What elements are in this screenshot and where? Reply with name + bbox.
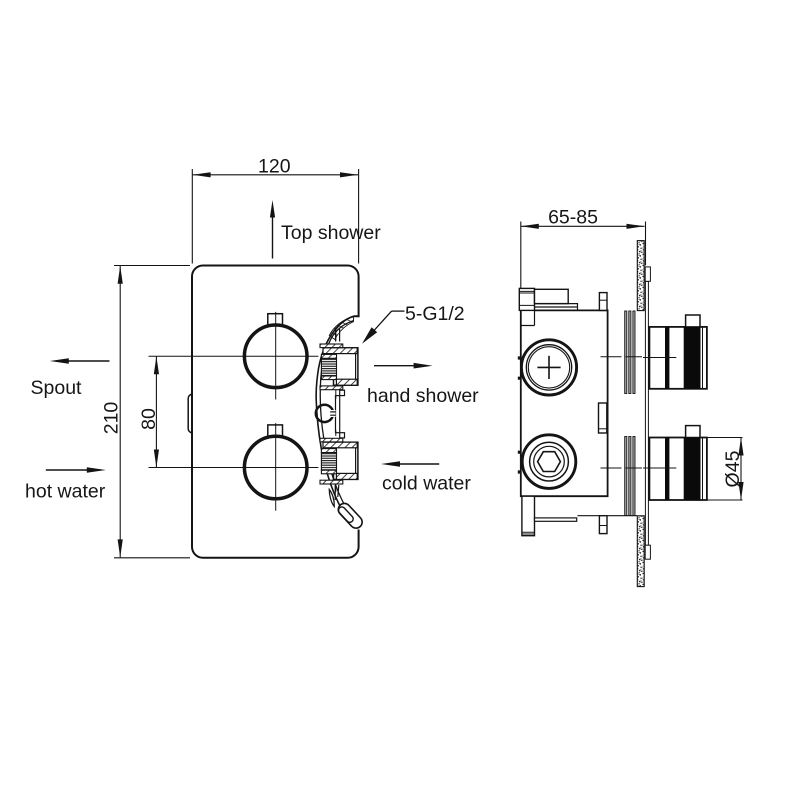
threaded rods upper (625, 311, 627, 394)
dim line 80 (155, 356, 157, 467)
left column lower line (521, 310, 535, 325)
block lines (522, 532, 535, 534)
body bottom thin bar (535, 518, 577, 521)
bottom handle centerline horizontal (149, 467, 319, 469)
top knob face line (702, 327, 704, 389)
bottom handle centerline vertical (275, 423, 277, 511)
DIMENSION 80 (154, 356, 159, 467)
leaf detail left of hook (329, 490, 334, 507)
arrow top of 210 (118, 266, 123, 284)
section band hatched top segment (329, 316, 353, 339)
flange top bar (320, 344, 343, 348)
svg-text:5-G1/2: 5-G1/2 (405, 303, 465, 325)
CONNECTOR bottom (cold water port) (320, 430, 358, 492)
spout bump on left edge (188, 394, 192, 433)
dim line 210 (119, 266, 121, 557)
top knob thick band (684, 327, 701, 389)
arrow left (521, 224, 539, 229)
barrel threads top (321, 358, 336, 376)
body top block (535, 289, 569, 303)
dim line 65-85 (521, 225, 645, 227)
dim line (740, 438, 742, 501)
body middle right tab (599, 403, 607, 433)
hatched rib patch (336, 327, 340, 334)
arrow left cold water (395, 463, 439, 465)
body top plate under block (535, 304, 578, 311)
ANNOTATION hot water (46, 467, 106, 473)
connector vertical centerline top (335, 328, 337, 341)
escutcheon bottom edge (608, 515, 637, 517)
top knob stem (686, 315, 700, 327)
nut top wall hatch (323, 442, 357, 448)
svg-text:hand shower: hand shower (367, 385, 479, 407)
bottom knob outline (649, 438, 707, 501)
svg-text:210: 210 (101, 402, 123, 435)
DIMENSION diameter 45 (707, 438, 744, 501)
bottom knob thin band (665, 438, 669, 501)
bore right wall (355, 448, 357, 474)
nut body top (334, 348, 358, 385)
bottom knob thick band (684, 438, 701, 501)
barrel threads bottom (321, 453, 336, 471)
svg-text:Spout: Spout (31, 377, 83, 399)
ANNOTATION cold water (381, 461, 439, 467)
body bottom left block (522, 496, 535, 536)
DIMENSION 65-85 (521, 222, 646, 289)
cap lines (519, 291, 534, 305)
CONNECTOR top (hand shower port) (320, 328, 358, 399)
body top right tab (599, 293, 607, 311)
flange bottom bar (320, 480, 343, 484)
top handle centerline horizontal (149, 355, 319, 357)
bottom hook slot (337, 506, 355, 524)
extension bottom (707, 499, 743, 501)
arrow bottom of 80 (154, 450, 159, 468)
arrow right of 120 (340, 172, 358, 177)
DIMENSION 120 (192, 169, 358, 264)
arrow right hand shower (374, 365, 418, 367)
dim line 120 (193, 174, 358, 176)
axis line top knob (601, 356, 677, 359)
barrel top cap hatch (321, 354, 336, 358)
temperature cartridge circle (521, 340, 576, 395)
rib step tab lower (340, 433, 345, 438)
arrow down (738, 482, 743, 500)
nut bottom wall hatch (336, 379, 357, 385)
body top left cap (519, 288, 534, 310)
nut bottom wall hatch (336, 473, 357, 479)
flange top bar (320, 438, 343, 442)
extension line top 210 (114, 265, 190, 267)
barrel bottom cap hatch (321, 376, 336, 380)
tab line (599, 525, 607, 527)
nut top wall hatch (323, 348, 357, 354)
rib between connectors (336, 396, 340, 433)
DIMENSION 210 (114, 266, 190, 558)
rib below bottom connector (335, 485, 339, 500)
tab line (599, 428, 607, 430)
cover plate top tab (645, 267, 650, 281)
flange bottom bar (320, 386, 343, 390)
pin bar lines (330, 412, 335, 415)
extension line right 120 (358, 169, 360, 264)
SIDE VIEW (519, 241, 707, 587)
top handle stem (268, 314, 283, 326)
top handle circle (244, 325, 307, 388)
barrel bottom cap hatch (321, 470, 336, 474)
body edge notch ticks (518, 356, 520, 473)
svg-text:Top shower: Top shower (281, 222, 381, 244)
connector vertical centerline bottom (335, 390, 337, 399)
arrow right (627, 224, 645, 229)
svg-text:80: 80 (138, 408, 160, 430)
arrow up (738, 438, 743, 456)
arrow top of 80 (154, 356, 159, 374)
bottom handle stem (268, 425, 283, 437)
ANNOTATION hand shower (374, 363, 433, 369)
body main rectangle (521, 310, 608, 496)
arrow bottom of 210 (118, 539, 123, 557)
bottom knob face line (702, 438, 704, 501)
section outer curve (316, 316, 353, 518)
connector vertical centerline top (335, 430, 337, 436)
barrel top cap hatch (321, 449, 336, 453)
svg-text:hot water: hot water (25, 481, 106, 503)
rib step tab upper (340, 390, 345, 395)
extension line bottom 210 (114, 557, 190, 559)
arrow left spout (64, 360, 110, 362)
connector vertical centerline bottom (335, 485, 337, 493)
top knob thin band (665, 327, 669, 389)
arrow right hot water (46, 469, 91, 471)
extension line left 120 (191, 169, 193, 264)
nut body bottom (334, 442, 358, 479)
hex socket (538, 452, 561, 472)
body bottom step line (578, 515, 600, 517)
ANNOTATION 5-G1/2 leader (362, 311, 405, 344)
svg-text:120: 120 (258, 156, 291, 178)
top knob outline (649, 327, 707, 389)
cover plate bottom tab (645, 545, 650, 559)
arrow left of 120 (193, 172, 211, 177)
pin bar cutout (330, 410, 335, 417)
threaded rods lower (625, 437, 627, 516)
tab line (599, 299, 607, 301)
thermostat pin circle (316, 405, 333, 422)
svg-text:Ø45: Ø45 (722, 450, 744, 487)
ANNOTATION spout (50, 358, 110, 364)
rib above top connector (336, 328, 340, 342)
svg-text:cold water: cold water (382, 473, 471, 495)
cover plate (645, 281, 648, 545)
wall section lower (637, 516, 644, 587)
ANNOTATION top shower (270, 200, 275, 259)
extension line left (520, 222, 522, 289)
front plate outline (192, 266, 359, 558)
body bottom right tab (599, 516, 607, 534)
volume cartridge circle (522, 435, 576, 489)
bottom knob stem (686, 426, 700, 438)
CUTAWAY SECTION PROFILE (316, 316, 365, 530)
bottom handle circle (244, 436, 307, 499)
section inner curve (320, 321, 353, 515)
arrow up top shower (272, 214, 274, 259)
cross vertical (548, 356, 550, 379)
extension line right (645, 222, 647, 266)
extension top (707, 437, 743, 439)
svg-text:65-85: 65-85 (548, 207, 598, 229)
bottom hook lobe (336, 501, 365, 531)
wall section upper (637, 241, 644, 311)
axis line bottom knob (601, 467, 677, 469)
bore right wall (355, 354, 357, 380)
cross horizontal (537, 366, 560, 368)
top handle centerline vertical (275, 312, 277, 400)
